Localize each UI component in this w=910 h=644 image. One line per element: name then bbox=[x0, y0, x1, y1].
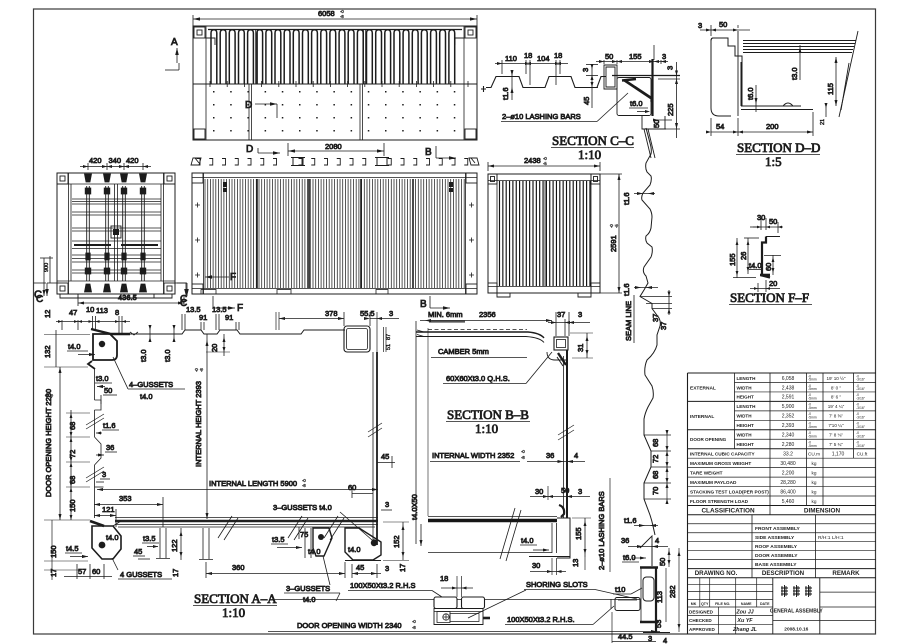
A-A right wall (mid) bbox=[344, 326, 392, 545]
svg-text:-8: -8 bbox=[340, 14, 344, 19]
svg-text:SIDE ASSEMBLY: SIDE ASSEMBLY bbox=[755, 535, 795, 541]
svg-text:CAMBER 5mm: CAMBER 5mm bbox=[438, 347, 489, 356]
svg-text:57: 57 bbox=[78, 567, 86, 576]
svg-text:2356: 2356 bbox=[479, 310, 496, 319]
F-F dims bbox=[728, 213, 785, 292]
svg-text:19' 4 ¼": 19' 4 ¼" bbox=[828, 404, 845, 409]
svg-text:31: 31 bbox=[576, 344, 585, 352]
door horizontal bands bbox=[72, 199, 161, 273]
A-A dims 132 / 2280 door opening height bbox=[43, 330, 90, 520]
floor plan dotted area bbox=[207, 81, 471, 132]
door handles bbox=[74, 244, 158, 246]
svg-text:t6.0: t6.0 bbox=[746, 87, 755, 100]
svg-text:DOOR OPENING: DOOR OPENING bbox=[690, 437, 727, 442]
svg-text:3: 3 bbox=[389, 309, 393, 318]
floor panel seams bbox=[249, 84, 363, 140]
svg-text:2591: 2591 bbox=[609, 235, 618, 252]
bottom rail pockets bbox=[201, 290, 388, 295]
svg-text:t4.5: t4.5 bbox=[66, 544, 79, 553]
svg-text:A: A bbox=[171, 37, 178, 48]
callout F (lower) bbox=[213, 296, 243, 314]
svg-text:HEIGHT: HEIGHT bbox=[737, 442, 755, 447]
callout C (door view right) bbox=[175, 283, 188, 305]
svg-text:155: 155 bbox=[629, 52, 642, 61]
svg-text:50: 50 bbox=[561, 486, 569, 495]
C-C title bbox=[551, 133, 634, 162]
svg-text:3: 3 bbox=[578, 310, 582, 319]
svg-text:7'10 ¼": 7'10 ¼" bbox=[828, 423, 844, 428]
svg-text:55.5: 55.5 bbox=[360, 309, 375, 318]
dimension 420 340 420 bbox=[80, 156, 151, 170]
svg-text:DOOR OPENING WIDTH 2340: DOOR OPENING WIDTH 2340 bbox=[297, 621, 402, 630]
svg-text:70: 70 bbox=[651, 487, 660, 495]
svg-text:13: 13 bbox=[571, 559, 580, 567]
svg-text:t3.5: t3.5 bbox=[272, 535, 285, 544]
svg-text:-8: -8 bbox=[521, 455, 525, 460]
svg-text:378: 378 bbox=[325, 309, 338, 318]
svg-text:-5: -5 bbox=[614, 224, 619, 228]
D-D corner casting profile bbox=[711, 31, 813, 116]
svg-text:HEIGHT: HEIGHT bbox=[737, 395, 755, 400]
corner sill profile bbox=[640, 544, 670, 633]
svg-text:6,058: 6,058 bbox=[782, 376, 795, 382]
svg-text:2,393: 2,393 bbox=[782, 423, 795, 429]
svg-text:WIDTH: WIDTH bbox=[737, 414, 753, 419]
svg-text:30: 30 bbox=[757, 213, 765, 222]
C-C corner post detail bbox=[612, 59, 680, 158]
B-B dims 37 3 bbox=[548, 310, 590, 336]
svg-text:2–ø10 LASHING BARS: 2–ø10 LASHING BARS bbox=[502, 112, 581, 121]
svg-text:-8: -8 bbox=[199, 368, 204, 372]
svg-text:2438: 2438 bbox=[524, 156, 541, 165]
svg-text:100X50Xt3.2 R.H.S.: 100X50Xt3.2 R.H.S. bbox=[507, 615, 575, 624]
seam line label bbox=[624, 295, 634, 343]
C-C dim 3 / 45 (left of corner) bbox=[581, 64, 598, 108]
A-A dim 20 (header step) bbox=[206, 334, 230, 356]
svg-text:20: 20 bbox=[769, 279, 777, 288]
svg-text:155: 155 bbox=[574, 527, 583, 540]
svg-text:420: 420 bbox=[126, 156, 139, 165]
A-A door header rail profile bbox=[91, 329, 345, 335]
svg-text:-5mm: -5mm bbox=[808, 444, 817, 448]
B-B camber label bbox=[431, 347, 527, 358]
svg-text:-5mm: -5mm bbox=[808, 434, 817, 438]
side view outline bbox=[192, 173, 477, 294]
dimension 2438 bbox=[488, 156, 600, 171]
svg-text:7' 8 ⅝": 7' 8 ⅝" bbox=[829, 414, 843, 419]
svg-text:54: 54 bbox=[716, 122, 724, 131]
svg-text:60: 60 bbox=[764, 263, 773, 271]
svg-text:STACKING TEST LOAD(PER POST: STACKING TEST LOAD(PER POST) bbox=[690, 489, 769, 494]
svg-text:GENERAL ASSEMBLY: GENERAL ASSEMBLY bbox=[770, 609, 824, 615]
svg-text:68: 68 bbox=[68, 476, 77, 484]
svg-text:t3.5: t3.5 bbox=[143, 534, 156, 543]
svg-text:18: 18 bbox=[524, 51, 532, 60]
svg-text:113: 113 bbox=[96, 306, 108, 315]
svg-text:91: 91 bbox=[199, 313, 207, 322]
callout F (upper) bbox=[205, 272, 236, 283]
section arrow D (below plan) bbox=[246, 144, 280, 155]
A-A rear corner post profile bbox=[86, 361, 104, 518]
svg-text:3–GUSSETS t4.0: 3–GUSSETS t4.0 bbox=[273, 503, 332, 512]
A-A dims 378 55.5 3 bbox=[276, 309, 399, 352]
front end outline bbox=[488, 174, 600, 297]
B-B dim 31 bbox=[570, 333, 593, 358]
svg-text:44.5: 44.5 bbox=[618, 632, 633, 641]
svg-text:TARE WEIGHT: TARE WEIGHT bbox=[690, 470, 723, 475]
A-A dim 353 bbox=[94, 494, 163, 527]
svg-text:WIDTH: WIDTH bbox=[737, 385, 753, 390]
svg-text:LENGTH: LENGTH bbox=[737, 376, 757, 381]
D-D roof sheet lines bbox=[743, 31, 858, 117]
B-B 60X60 QHS label bbox=[443, 352, 552, 384]
svg-text:68: 68 bbox=[651, 471, 660, 479]
svg-text:-5mm: -5mm bbox=[808, 387, 817, 391]
lashing bars label (vertical) bbox=[597, 478, 610, 572]
svg-text:MAXIMUM PAYLOAD: MAXIMUM PAYLOAD bbox=[690, 480, 737, 485]
svg-text:INTERNAL WIDTH 2352: INTERNAL WIDTH 2352 bbox=[432, 451, 514, 460]
roof corrugation panel bbox=[208, 29, 462, 84]
corner detail t6.0 bbox=[622, 553, 646, 562]
svg-text:SHORING SLOTS: SHORING SLOTS bbox=[526, 580, 588, 589]
svg-text:28,280: 28,280 bbox=[780, 480, 796, 486]
svg-text:6058: 6058 bbox=[318, 9, 335, 18]
svg-text:B: B bbox=[420, 299, 427, 310]
svg-text:4: 4 bbox=[663, 636, 667, 644]
vent marks bbox=[223, 182, 453, 192]
B-B top corner casting bbox=[547, 337, 568, 366]
svg-text:DOOR ASSEMBLY: DOOR ASSEMBLY bbox=[755, 553, 798, 559]
A-A bottom right corner fitting bbox=[345, 528, 381, 561]
D-D dim t3.0 bbox=[790, 45, 802, 80]
svg-text:360: 360 bbox=[232, 563, 245, 572]
svg-text:-5mm: -5mm bbox=[808, 425, 817, 429]
C-C lashing bar (thick diagonal) bbox=[622, 79, 652, 102]
svg-text:-5mm: -5mm bbox=[808, 406, 817, 410]
shoring slots label bbox=[468, 580, 637, 618]
svg-text:200: 200 bbox=[766, 122, 779, 131]
A-A internal length 5900 bbox=[97, 478, 378, 491]
svg-text:t4.0X50: t4.0X50 bbox=[410, 494, 419, 520]
svg-text:8' 0 ": 8' 0 " bbox=[831, 385, 842, 390]
A-A dim 121 bbox=[94, 505, 116, 527]
svg-text:12: 12 bbox=[43, 310, 52, 318]
svg-text:BASE ASSEMBLY: BASE ASSEMBLY bbox=[755, 562, 797, 568]
A-A dim t1.6 (post) bbox=[96, 421, 119, 435]
B-B dim 155 / t4.0 / 30 / 13 bbox=[520, 518, 591, 575]
svg-text:2080: 2080 bbox=[325, 142, 342, 151]
D-D dims 54 200 21 bbox=[706, 103, 828, 136]
seam line wavy curve bbox=[640, 128, 660, 535]
A-A t3.0 vertical labels on header bbox=[139, 325, 176, 362]
svg-text:1,170: 1,170 bbox=[832, 452, 845, 458]
svg-text:45: 45 bbox=[582, 97, 591, 105]
section arrow A bbox=[165, 37, 179, 70]
dimension 6058 bbox=[193, 9, 477, 26]
svg-text:INTERNAL HEIGHT 2393: INTERNAL HEIGHT 2393 bbox=[194, 381, 203, 467]
svg-text:NAME: NAME bbox=[741, 602, 752, 606]
svg-text:132: 132 bbox=[43, 345, 52, 358]
svg-text:50: 50 bbox=[658, 558, 667, 566]
side corner fittings bbox=[192, 173, 477, 294]
A-A section title bbox=[193, 591, 277, 620]
svg-text:50: 50 bbox=[104, 386, 112, 395]
svg-text:2008.10.16: 2008.10.16 bbox=[784, 627, 808, 633]
svg-text:68: 68 bbox=[68, 422, 77, 430]
svg-text:436.5: 436.5 bbox=[118, 293, 137, 302]
svg-text:75: 75 bbox=[300, 530, 308, 539]
label 100X50Xt3.2 R.H.S (A-A) bbox=[348, 581, 442, 597]
svg-text:t1.6: t1.6 bbox=[103, 421, 116, 430]
A-A dims 45 60 3 t4.0X50 bbox=[348, 452, 423, 546]
svg-text:t6.0: t6.0 bbox=[623, 553, 636, 562]
A-A dims 68 72 68 150 (left of post) bbox=[66, 410, 90, 520]
A-A 3-GUSSETS label (upper) bbox=[273, 503, 377, 545]
floor centre datum line bbox=[274, 599, 640, 601]
top view outline bbox=[193, 26, 477, 140]
B-B right wall bbox=[558, 350, 574, 518]
svg-text:-0: -0 bbox=[543, 156, 547, 161]
svg-text:2,340: 2,340 bbox=[782, 433, 795, 439]
svg-text:SECTION A–A: SECTION A–A bbox=[194, 591, 277, 606]
svg-text:INTERNAL CUBIC CAPACITY: INTERNAL CUBIC CAPACITY bbox=[690, 452, 756, 457]
svg-text:3: 3 bbox=[581, 68, 590, 72]
svg-text:26: 26 bbox=[739, 252, 748, 260]
svg-text:53: 53 bbox=[654, 620, 663, 628]
svg-text:CU.ft: CU.ft bbox=[857, 452, 868, 457]
svg-text:t3.0: t3.0 bbox=[790, 67, 799, 80]
svg-text:36: 36 bbox=[546, 451, 554, 460]
svg-text:282: 282 bbox=[668, 585, 677, 598]
svg-text:3: 3 bbox=[102, 470, 106, 479]
svg-text:t4.0: t4.0 bbox=[140, 392, 153, 401]
svg-text:-0: -0 bbox=[340, 9, 344, 14]
svg-text:t4.0: t4.0 bbox=[106, 533, 119, 542]
svg-text:-0: -0 bbox=[412, 619, 416, 624]
svg-text:t3.0: t3.0 bbox=[139, 349, 148, 362]
side wall panel seams bbox=[257, 179, 413, 288]
C-C roof sheet profile bbox=[481, 65, 617, 92]
D-D title bbox=[736, 140, 820, 169]
svg-text:ROOF ASSEMBLY: ROOF ASSEMBLY bbox=[755, 544, 798, 550]
A-A internal height 2393 bbox=[194, 334, 209, 519]
svg-text:F: F bbox=[230, 272, 236, 283]
svg-text:5,460: 5,460 bbox=[782, 499, 795, 505]
svg-text:4 GUSSETS: 4 GUSSETS bbox=[120, 570, 162, 579]
svg-text:-3/16": -3/16" bbox=[856, 416, 866, 420]
svg-text:87: 87 bbox=[386, 334, 392, 340]
callout C (door view left) bbox=[36, 283, 57, 305]
svg-text:2,200: 2,200 bbox=[782, 470, 795, 476]
svg-text:CU.m: CU.m bbox=[808, 452, 820, 457]
svg-text:18: 18 bbox=[554, 51, 562, 60]
svg-text:51: 51 bbox=[386, 344, 392, 350]
svg-text:2,438: 2,438 bbox=[782, 385, 795, 391]
svg-text:1:10: 1:10 bbox=[475, 421, 498, 436]
svg-text:3: 3 bbox=[666, 66, 675, 70]
shoring slot R.H.S. tube bbox=[611, 598, 640, 611]
svg-text:1:10: 1:10 bbox=[222, 605, 245, 620]
svg-text:APPROVED: APPROVED bbox=[689, 627, 715, 632]
svg-text:900: 900 bbox=[44, 263, 50, 272]
svg-text:353: 353 bbox=[119, 494, 132, 503]
A-A top gusset box bbox=[93, 334, 117, 360]
svg-text:FLOOR STRENGTH LOAD: FLOOR STRENGTH LOAD bbox=[690, 499, 749, 504]
svg-text:8' 6 ": 8' 6 " bbox=[831, 395, 842, 400]
front corrugation bbox=[500, 181, 590, 286]
svg-text:3: 3 bbox=[385, 500, 389, 509]
roof fittings row above side view bbox=[191, 158, 479, 166]
C-C dim t1.6 bbox=[501, 70, 514, 100]
svg-text:3: 3 bbox=[698, 21, 702, 30]
svg-text:4–GUSSETS: 4–GUSSETS bbox=[129, 380, 173, 389]
A-A t3.0 label (post) bbox=[95, 374, 112, 388]
svg-text:121: 121 bbox=[102, 505, 115, 514]
section arrow B (top) bbox=[425, 146, 456, 160]
corner dims 50 113 282 53 3 4 44.5 bbox=[612, 548, 681, 644]
door end outer frame bbox=[57, 173, 175, 298]
door end corner castings bbox=[57, 173, 175, 294]
svg-text:7' 5 ¾": 7' 5 ¾" bbox=[829, 442, 843, 447]
floor centre sill detail bbox=[434, 574, 490, 625]
svg-text:EXTERNAL: EXTERNAL bbox=[690, 386, 716, 392]
svg-text:REMARK: REMARK bbox=[832, 570, 860, 577]
svg-text:72: 72 bbox=[651, 455, 660, 463]
svg-text:60X60Xt3.0 Q.H.S.: 60X60Xt3.0 Q.H.S. bbox=[446, 374, 510, 383]
svg-text:20: 20 bbox=[210, 344, 219, 352]
svg-text:420: 420 bbox=[89, 156, 102, 165]
seam 68 72 68 70 dims bbox=[644, 430, 671, 504]
side wall corrugation bbox=[205, 179, 464, 288]
svg-text:-5: -5 bbox=[543, 161, 547, 166]
t10 label bbox=[613, 585, 642, 594]
C-C label 2-ø10 LASHING BARS bbox=[501, 93, 628, 122]
svg-text:50: 50 bbox=[769, 217, 777, 226]
A-A label t4.5 bbox=[65, 544, 88, 558]
svg-text:150: 150 bbox=[68, 499, 77, 512]
svg-text:68: 68 bbox=[651, 439, 660, 447]
svg-text:152: 152 bbox=[392, 535, 401, 548]
svg-text:5,900: 5,900 bbox=[782, 404, 795, 410]
svg-text:-8: -8 bbox=[302, 483, 306, 488]
A-A dim t4.0 (gusset) bbox=[67, 342, 95, 356]
svg-text:-0: -0 bbox=[609, 224, 614, 228]
svg-text:122: 122 bbox=[170, 539, 179, 552]
B-B left cut edge bbox=[416, 321, 428, 544]
C-C dims 50 155 3 bbox=[596, 45, 668, 64]
A-A floor break slashes bbox=[218, 516, 344, 540]
svg-text:-3/16": -3/16" bbox=[856, 387, 866, 391]
svg-text:4: 4 bbox=[655, 536, 659, 545]
A-A crossmember mid (360 left) bbox=[199, 528, 213, 560]
svg-text:-5mm: -5mm bbox=[808, 397, 817, 401]
B-B dim 2356 bbox=[420, 310, 552, 322]
svg-text:2,280: 2,280 bbox=[782, 442, 795, 448]
svg-text:DESIGNED: DESIGNED bbox=[689, 610, 714, 615]
svg-text:37: 37 bbox=[659, 322, 668, 330]
svg-text:-8: -8 bbox=[49, 394, 54, 398]
svg-text:-3/16": -3/16" bbox=[856, 434, 866, 438]
svg-text:D: D bbox=[246, 144, 253, 155]
B-B bottom lashing hook bbox=[559, 505, 564, 517]
100X50 RHS label (lower) bbox=[505, 606, 614, 625]
svg-text:45: 45 bbox=[381, 452, 389, 461]
svg-text:2,352: 2,352 bbox=[782, 414, 795, 420]
svg-text:50: 50 bbox=[605, 52, 613, 61]
svg-text:30: 30 bbox=[532, 561, 540, 570]
svg-text:18: 18 bbox=[440, 574, 448, 583]
svg-text:LENGTH: LENGTH bbox=[737, 404, 757, 409]
svg-text:37: 37 bbox=[651, 314, 660, 322]
A-A top dims 12 47 10 113 8 bbox=[43, 305, 130, 334]
svg-text:WIDTH: WIDTH bbox=[737, 433, 753, 438]
A-A dims 57 60 17 / 4 GUSSETS bbox=[64, 558, 180, 579]
door opening width 2340 bbox=[268, 619, 660, 633]
svg-text:155: 155 bbox=[728, 253, 737, 266]
svg-text:F: F bbox=[237, 303, 243, 314]
svg-text:t4.0: t4.0 bbox=[521, 536, 534, 545]
svg-text:-3/16": -3/16" bbox=[856, 406, 866, 410]
svg-text:t1.6: t1.6 bbox=[624, 516, 637, 525]
dimension 2080 bbox=[288, 142, 384, 156]
svg-text:CLASSIFICATION: CLASSIFICATION bbox=[701, 508, 755, 515]
svg-text:45: 45 bbox=[134, 547, 142, 556]
svg-text:340: 340 bbox=[109, 156, 122, 165]
A-A dim 50 (post step) bbox=[101, 386, 117, 404]
A-A centre crossmember + gusset bbox=[271, 527, 332, 558]
svg-text:-5mm: -5mm bbox=[808, 378, 817, 382]
D-D dim 115 bbox=[826, 57, 838, 106]
svg-text:-0: -0 bbox=[44, 394, 49, 398]
svg-text:10: 10 bbox=[86, 305, 94, 314]
dimension 436.5 bbox=[78, 293, 184, 306]
svg-text:t10: t10 bbox=[615, 585, 625, 594]
svg-text:33.2: 33.2 bbox=[783, 452, 793, 458]
D-D dim t6.0 bbox=[746, 85, 758, 112]
A-A dims 45 3 152 17 (bottom right) bbox=[352, 522, 409, 578]
svg-text:110: 110 bbox=[505, 54, 517, 63]
B-B roof lines bbox=[416, 330, 544, 343]
svg-text:Zou JJ: Zou JJ bbox=[735, 610, 754, 616]
svg-text:-0: -0 bbox=[194, 368, 199, 372]
svg-text:R/H:1 L/H:1: R/H:1 L/H:1 bbox=[818, 535, 844, 541]
svg-text:Zhang JL: Zhang JL bbox=[732, 627, 757, 633]
svg-text:30: 30 bbox=[535, 487, 543, 496]
svg-text:-3/16": -3/16" bbox=[856, 397, 866, 401]
svg-text:t1.6: t1.6 bbox=[622, 192, 631, 205]
corner detail 36 / 4 bbox=[621, 536, 668, 548]
svg-text:FILE NO.: FILE NO. bbox=[715, 602, 730, 606]
svg-text:SECTION F–F: SECTION F–F bbox=[730, 290, 809, 305]
svg-text:QTY: QTY bbox=[701, 602, 709, 606]
svg-text:7' 8 ⅛": 7' 8 ⅛" bbox=[829, 433, 843, 438]
svg-text:t1.6: t1.6 bbox=[501, 87, 510, 100]
svg-text:-0: -0 bbox=[302, 478, 306, 483]
callout B (side view right) bbox=[420, 296, 450, 310]
A-A crossmember left (353) bbox=[133, 528, 170, 559]
svg-text:D: D bbox=[245, 100, 252, 111]
svg-text:t1.6: t1.6 bbox=[622, 283, 631, 296]
top view corner castings bbox=[194, 27, 476, 139]
svg-text:FRONT ASSEMBLY: FRONT ASSEMBLY bbox=[755, 526, 800, 532]
svg-text:104: 104 bbox=[537, 54, 550, 63]
seam 37 dims (upper pair) bbox=[640, 290, 672, 330]
svg-text:86,400: 86,400 bbox=[780, 489, 796, 495]
svg-text:3–GUSSETS: 3–GUSSETS bbox=[286, 584, 330, 593]
svg-text:1:10: 1:10 bbox=[578, 147, 601, 162]
svg-text:1:5: 1:5 bbox=[765, 154, 782, 169]
front end corner castings bbox=[488, 174, 600, 293]
